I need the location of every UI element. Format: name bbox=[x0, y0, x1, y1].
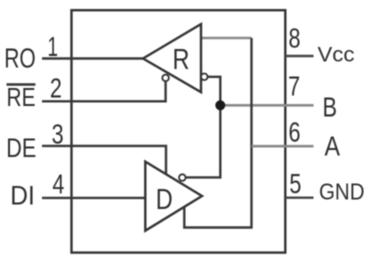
bubble receiver enable RE bbox=[162, 75, 169, 82]
svg-text:4: 4 bbox=[52, 169, 64, 200]
wire net A: receiver input from vertical bus bbox=[201, 37, 252, 40]
svg-text:1: 1 bbox=[48, 31, 59, 62]
bubble receiver inverting input B bbox=[201, 74, 208, 81]
svg-text:GND: GND bbox=[319, 179, 365, 205]
RE overline bbox=[7, 83, 36, 85]
svg-text:3: 3 bbox=[52, 119, 64, 150]
wire net A vertical bus and driver output bbox=[184, 38, 251, 228]
bubble driver inverting output B bbox=[179, 174, 186, 181]
svg-text:A: A bbox=[325, 130, 341, 161]
svg-text:6: 6 bbox=[289, 117, 301, 148]
svg-text:R: R bbox=[173, 44, 190, 76]
wire net A to pin 6 bbox=[252, 145, 314, 148]
svg-text:Vcc: Vcc bbox=[318, 43, 355, 66]
wire pin3 DE to driver enable bbox=[42, 146, 166, 174]
svg-text:DE: DE bbox=[6, 133, 36, 163]
IC body box U1 bbox=[72, 10, 286, 252]
wire pin5 GND stub bbox=[285, 196, 313, 198]
wire pin1 RO bbox=[42, 57, 143, 59]
svg-text:RO: RO bbox=[4, 43, 36, 74]
driver D triangle bbox=[145, 162, 202, 231]
wire net B to pin 7 bbox=[220, 104, 313, 107]
svg-text:DI: DI bbox=[10, 181, 35, 211]
svg-text:RE: RE bbox=[7, 84, 36, 112]
svg-text:D: D bbox=[156, 184, 173, 216]
wire net B: receiver inverting input to driver inverting output bbox=[186, 77, 220, 178]
svg-text:2: 2 bbox=[50, 73, 62, 104]
svg-text:B: B bbox=[323, 92, 338, 123]
svg-text:5: 5 bbox=[289, 168, 301, 199]
svg-text:8: 8 bbox=[289, 22, 301, 53]
svg-text:7: 7 bbox=[288, 71, 300, 102]
wire pin8 Vcc stub bbox=[285, 55, 313, 57]
receiver R triangle bbox=[143, 24, 201, 92]
wire pin2 RE to receiver enable bubble bbox=[42, 81, 166, 101]
node junction dot net B bbox=[215, 100, 225, 110]
wire pin4 DI bbox=[42, 197, 146, 199]
